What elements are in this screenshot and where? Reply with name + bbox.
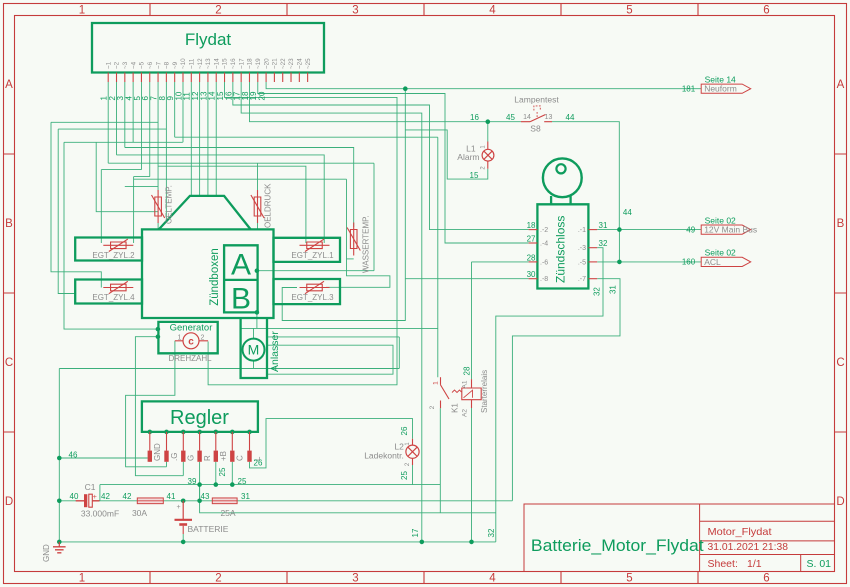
svg-text:2: 2 [429,405,436,409]
svg-text:28: 28 [527,253,536,262]
svg-text:5: 5 [626,573,632,585]
svg-text:~15: ~15 [222,58,229,69]
svg-text:30A: 30A [132,508,147,518]
svg-text:OELDRUCK: OELDRUCK [264,183,273,228]
svg-text:Zündboxen: Zündboxen [209,248,221,306]
svg-text:K1: K1 [451,403,460,413]
svg-text:EGT_ZYL.3: EGT_ZYL.3 [291,293,334,302]
svg-text:3: 3 [352,5,358,17]
svg-text:B: B [231,283,251,316]
svg-text:1: 1 [178,335,182,342]
svg-text:33.000mF: 33.000mF [81,509,119,519]
svg-text:1/1: 1/1 [747,558,762,570]
svg-text:C: C [236,455,245,461]
svg-text:42: 42 [123,492,132,501]
svg-text:+B: +B [219,451,228,461]
svg-text:.-3: .-3 [578,245,586,252]
svg-text:C: C [836,357,844,369]
svg-text:.-5: .-5 [578,259,586,266]
svg-text:D: D [836,496,844,508]
svg-text:20: 20 [257,91,266,100]
svg-text:1: 1 [79,573,85,585]
svg-text:43: 43 [201,492,210,501]
svg-text:44: 44 [623,208,632,217]
svg-text:~25: ~25 [305,58,312,69]
svg-text:27: 27 [527,235,536,244]
svg-text:25: 25 [218,467,227,476]
svg-text:~8: ~8 [164,61,171,69]
svg-text:2: 2 [215,573,221,585]
svg-text:2: 2 [201,335,205,342]
svg-text:40: 40 [70,492,79,501]
svg-text:32: 32 [487,528,496,537]
svg-text:Motor_Flydat: Motor_Flydat [708,526,772,538]
svg-text:14: 14 [523,114,531,121]
svg-text:Lampentest: Lampentest [514,95,559,105]
svg-text:EGT_ZYL.2: EGT_ZYL.2 [92,251,135,260]
svg-text:4: 4 [489,573,496,585]
svg-text:49: 49 [686,225,695,234]
svg-text:~7: ~7 [155,61,162,69]
svg-text:~19: ~19 [255,58,262,69]
svg-text:1: 1 [433,381,440,385]
svg-text:32: 32 [593,287,602,296]
svg-text:~13: ~13 [205,58,212,69]
svg-text:28: 28 [462,366,471,375]
svg-text:31.01.2021 21:38: 31.01.2021 21:38 [708,541,789,553]
svg-text:A: A [5,79,13,91]
svg-text:WASSERTEMP.: WASSERTEMP. [362,215,371,273]
svg-text:Starterrelais: Starterrelais [480,370,489,413]
svg-text:S8: S8 [530,124,541,134]
svg-text:DREHZAHL: DREHZAHL [168,354,212,363]
svg-text:42: 42 [101,492,110,501]
svg-text:Seite 02: Seite 02 [705,248,736,258]
svg-text:G: G [187,455,196,461]
svg-text:1: 1 [79,5,85,17]
svg-text:Batterie_Motor_Flydat: Batterie_Motor_Flydat [531,537,704,555]
svg-text:~18: ~18 [247,58,254,69]
svg-text:~11: ~11 [189,58,196,69]
svg-text:~4: ~4 [130,61,137,69]
svg-text:46: 46 [69,451,78,460]
svg-text:R: R [203,455,212,461]
svg-text:Alarm: Alarm [457,152,479,162]
svg-text:160: 160 [682,258,696,267]
svg-text:Flydat: Flydat [185,30,232,49]
svg-text:~12: ~12 [197,58,204,69]
svg-text:.-2: .-2 [540,227,548,234]
svg-text:25: 25 [238,477,247,486]
svg-text:Neuform: Neuform [704,84,737,94]
svg-text:30: 30 [527,270,536,279]
svg-text:~16: ~16 [230,58,237,69]
svg-text:32: 32 [599,239,608,248]
svg-text:~9: ~9 [172,61,179,69]
svg-text:EGT_ZYL.4: EGT_ZYL.4 [92,293,135,302]
svg-text:45: 45 [506,113,515,122]
svg-text:18: 18 [527,221,536,230]
svg-text:6: 6 [763,5,769,17]
svg-text:6: 6 [763,573,769,585]
svg-text:~14: ~14 [213,58,220,69]
svg-text:.-4: .-4 [540,241,548,248]
svg-text:31: 31 [609,285,618,294]
svg-text:~6: ~6 [147,61,154,69]
svg-text:31: 31 [599,221,608,230]
svg-text:44: 44 [566,113,575,122]
svg-text:~21: ~21 [272,58,279,69]
svg-text:~5: ~5 [139,61,146,69]
svg-text:31: 31 [241,492,250,501]
svg-text:15: 15 [470,171,479,180]
svg-text:181: 181 [682,85,696,94]
svg-text:17: 17 [411,528,420,537]
svg-text:B: B [5,218,13,230]
svg-text:16: 16 [470,113,479,122]
svg-text:~20: ~20 [263,58,270,69]
svg-text:~24: ~24 [297,58,304,69]
svg-text:.G: .G [170,453,179,461]
svg-text:.-8: .-8 [540,276,548,283]
svg-text:~10: ~10 [180,58,187,69]
svg-text:B: B [837,218,845,230]
svg-text:EGT_ZYL.1: EGT_ZYL.1 [291,251,334,260]
svg-text:12V Main Bus: 12V Main Bus [704,225,757,235]
svg-text:.-7: .-7 [578,276,586,283]
svg-text:A: A [837,79,845,91]
svg-text:25: 25 [400,471,409,480]
svg-text:~22: ~22 [280,58,287,69]
svg-text:3: 3 [352,573,358,585]
svg-text:5: 5 [626,5,632,17]
svg-text:13: 13 [545,114,553,121]
svg-text:26: 26 [254,459,263,468]
svg-text:.-1: .-1 [578,227,586,234]
svg-text:Sheet:: Sheet: [708,558,738,570]
svg-text:2: 2 [215,5,221,17]
svg-text:A: A [231,249,251,282]
svg-text:~1: ~1 [105,61,112,69]
svg-text:GND: GND [42,544,51,562]
svg-text:C1: C1 [85,482,96,492]
svg-text:~2: ~2 [114,61,121,69]
svg-text:+: + [176,504,180,511]
svg-text:M: M [248,342,260,358]
svg-text:~3: ~3 [122,61,129,69]
svg-text:C: C [5,357,13,369]
svg-text:A1: A1 [462,380,469,388]
svg-text:Ladekontr.: Ladekontr. [364,451,404,461]
svg-text:39: 39 [188,477,197,486]
svg-text:S. 01: S. 01 [807,558,832,570]
svg-text:GND: GND [153,443,162,461]
svg-text:ACL: ACL [704,257,721,267]
svg-text:+: + [93,494,97,501]
svg-text:c: c [188,336,194,347]
svg-text:BATTERIE: BATTERIE [188,524,229,534]
svg-text:D: D [5,496,13,508]
svg-text:26: 26 [400,426,409,435]
svg-text:.-6: .-6 [540,259,548,266]
svg-text:Regler: Regler [170,407,229,429]
svg-text:Seite 02: Seite 02 [705,215,736,225]
svg-text:Seite 14: Seite 14 [705,74,736,84]
svg-text:OELTEMP.: OELTEMP. [165,185,174,224]
svg-text:Generator: Generator [170,323,213,334]
svg-text:Anlasser: Anlasser [269,331,281,372]
svg-text:~17: ~17 [238,58,245,69]
svg-text:A2: A2 [462,409,469,417]
svg-text:~23: ~23 [288,58,295,69]
svg-text:Zündschloss: Zündschloss [554,216,568,283]
svg-text:25A: 25A [220,508,235,518]
svg-text:41: 41 [167,492,176,501]
svg-text:4: 4 [489,5,496,17]
